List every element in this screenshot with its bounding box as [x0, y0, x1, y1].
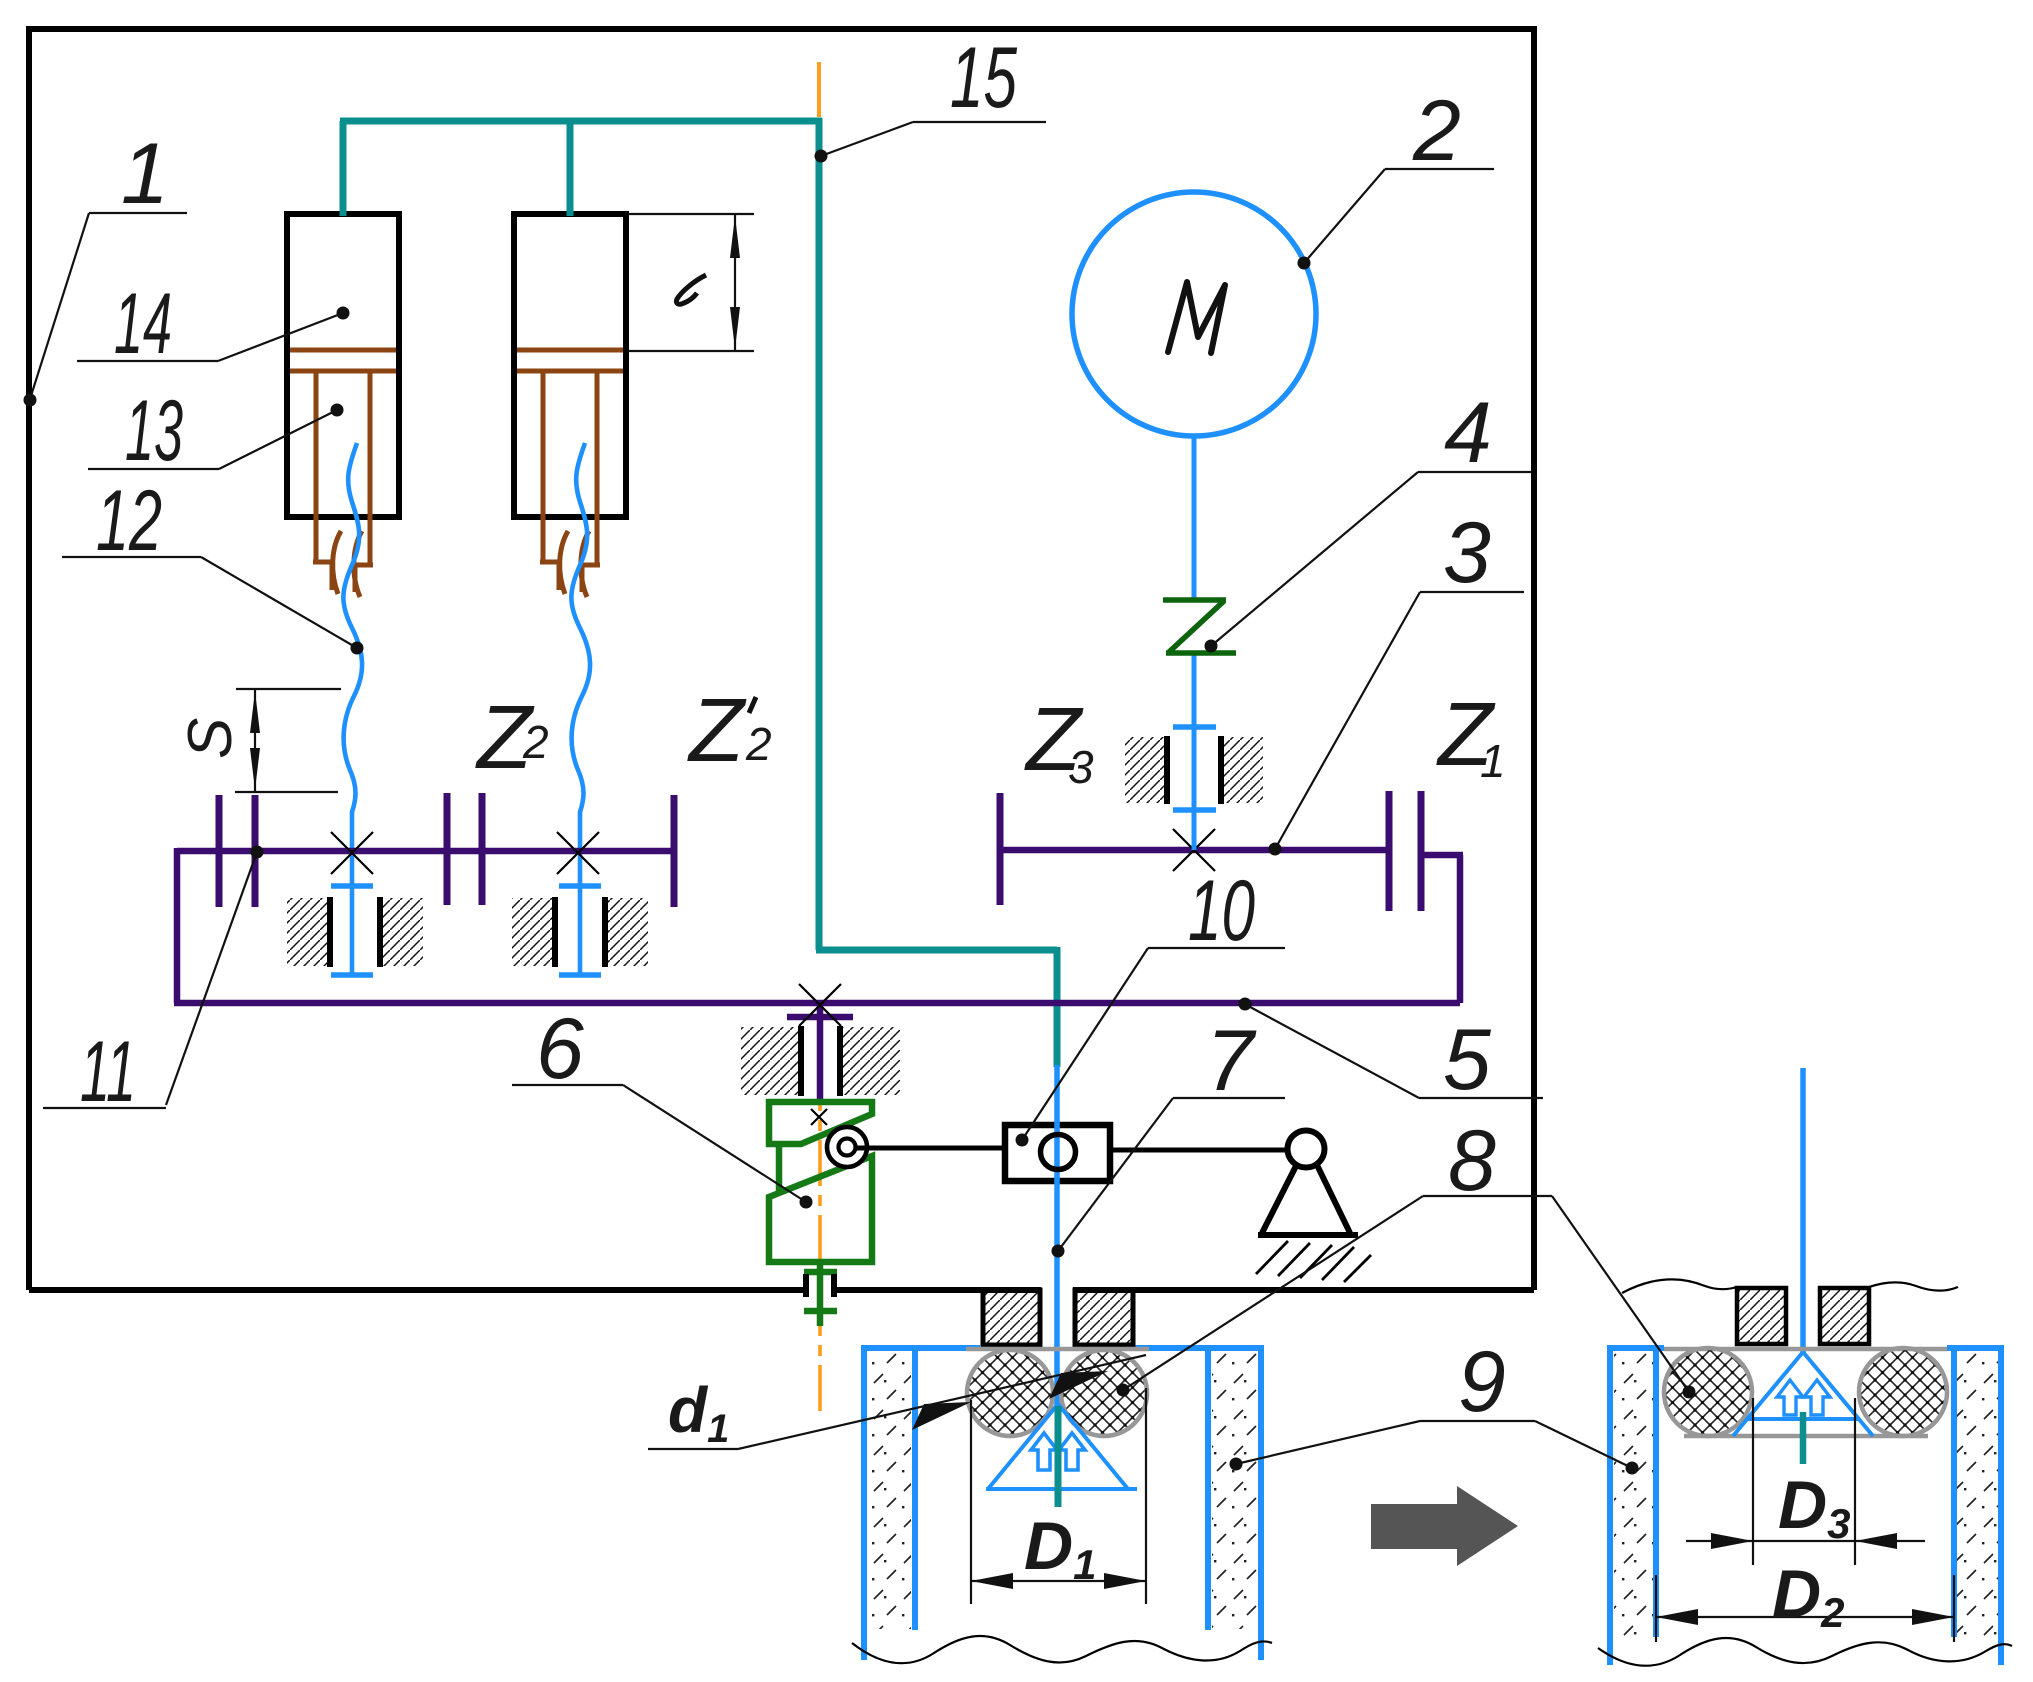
svg-text:2: 2 — [522, 716, 549, 768]
melt cone (blue, detail) — [1733, 1352, 1873, 1436]
output shaft of mechanism 6 — [817, 1262, 824, 1326]
lever (right part) — [1110, 1148, 1290, 1153]
spindle (left, blue vertical through gear Z2) — [331, 727, 1216, 975]
svg-text:2: 2 — [745, 718, 772, 770]
svg-text:5: 5 — [1443, 1012, 1492, 1108]
bearing (motor spindle above Z3) — [1125, 736, 1263, 804]
dimension D2 — [1656, 1575, 1954, 1642]
wire melt stream 12 (left, wavy blue) — [343, 443, 362, 975]
mechanism 6 (green friction variator) — [769, 1102, 872, 1326]
svg-text:8: 8 — [1448, 1113, 1496, 1209]
crucible wall hatch (detail) — [1614, 1351, 1653, 1636]
svg-text:1: 1 — [121, 126, 169, 222]
gear mesh X (Z2) — [331, 832, 373, 874]
svg-text:3: 3 — [1443, 505, 1491, 601]
gear mesh X (Z'2) — [557, 832, 599, 874]
regulator 10 (box with circle) — [1005, 1125, 1110, 1181]
drawn fibre (teal, detail) — [1800, 1412, 1807, 1464]
lever 7 linkage (left part) — [856, 1146, 1005, 1151]
motor letter M — [1168, 282, 1225, 353]
piston (second cylinder piston, brown) — [517, 350, 623, 597]
svg-text:4: 4 — [1444, 385, 1492, 481]
bearing (vertical bevel shaft) — [741, 1026, 900, 1096]
svg-text:11: 11 — [80, 1024, 136, 1120]
detail view break line (top wavy) — [1622, 1279, 1737, 1293]
motor shaft (blue) — [1192, 436, 1197, 600]
roller 8 (detail right) — [1859, 1348, 1947, 1436]
gear end plates (purple bars) — [219, 791, 1421, 911]
gear mesh X (Z3) — [1173, 829, 1215, 871]
dimension l (cylinder stroke) — [628, 214, 754, 351]
svg-text:S: S — [176, 718, 245, 759]
svg-text:10: 10 — [1188, 863, 1255, 959]
bearing (gear Z'2 spindle) — [512, 897, 648, 967]
svg-text:2: 2 — [1412, 83, 1461, 179]
svg-text:3: 3 — [1068, 741, 1094, 793]
roller 8 (detail left) — [1664, 1348, 1752, 1436]
coupling 4 (slip coupling, green Z) — [1163, 600, 1236, 653]
melt cone (blue triangle, left view) — [986, 1404, 1137, 1489]
roller 8 (right, crosshatched) — [1061, 1350, 1147, 1436]
dimension S (stream sag) — [235, 689, 341, 792]
dimension D1 — [971, 1388, 1146, 1604]
centerline (orange) above pipe — [817, 62, 821, 117]
melt stream (second, wavy blue) — [571, 443, 590, 975]
spinneret channel blocks 8 area (hatched) — [983, 1290, 1040, 1345]
svg-text:15: 15 — [950, 30, 1018, 126]
svg-text:9: 9 — [1458, 1334, 1506, 1430]
svg-text:Z: Z — [687, 681, 747, 781]
svg-text:6: 6 — [536, 1001, 584, 1097]
roller housing line (gray) — [966, 1347, 1149, 1352]
svg-text:13: 13 — [125, 383, 183, 479]
thrust bearing bars of mechanism 6 — [803, 1274, 809, 1297]
gear mesh X (bevel on shaft 5) — [799, 984, 841, 1026]
shaft 3 (right gear-train shaft) — [1000, 847, 1389, 854]
motor 2 (M, blue circle) — [1072, 192, 1316, 436]
crucible wall hatch (left view) — [868, 1351, 911, 1629]
shaft 5 (long bottom transmission shaft) — [174, 1000, 1460, 1007]
svg-text:14: 14 — [114, 276, 172, 372]
detail break line (wavy bottom) — [1598, 1638, 2012, 1666]
shaft 11 (left gear-train shaft, purple) — [174, 848, 1463, 1100]
crucible break line (wavy bottom) — [852, 1636, 1272, 1663]
piston 13 (left cylinder piston, brown) — [290, 350, 396, 597]
crucible 9 (left view, blue walls) — [861, 1345, 1264, 1660]
roller 8 (left, crosshatched) — [967, 1350, 1053, 1436]
cylinder (second feed cylinder body) — [514, 214, 626, 517]
transition arrow (gray block arrow) — [1371, 1486, 1518, 1566]
detail spinneret blocks (hatched) — [1737, 1288, 1786, 1344]
cylinder 14 (left feed cylinder body) — [287, 214, 399, 517]
detail melt feed line (blue) — [1800, 1068, 1806, 1353]
svg-text:1: 1 — [1480, 735, 1506, 787]
drawn fibre (teal, below nip) — [1055, 1406, 1062, 1507]
bearing (gear Z2 spindle) — [287, 897, 423, 967]
pipe joints at cylinder tops (teal overlay) — [340, 206, 347, 216]
flow arrows (blue, detail) — [1777, 1380, 1803, 1415]
support hatching — [1256, 1241, 1371, 1282]
frame 1 (machine housing border) — [29, 29, 1534, 1290]
small x mark on variator centerline — [811, 1109, 827, 1125]
crucible 9 (detail view, blue walls) — [1607, 1345, 2004, 1665]
centerline (orange) of vertical shaft / mechanism 6 — [818, 1065, 822, 1412]
pipe 15 (gas line, teal) — [340, 118, 1057, 1067]
shaft (vertical bevel output to mechanism 6) — [817, 1003, 824, 1100]
dimension D3 — [1686, 1398, 1925, 1565]
label l — [676, 275, 706, 304]
d1 arrowheads — [912, 1402, 971, 1430]
flow arrows (blue, left view) — [1031, 1433, 1057, 1470]
roller housing (gray stadium, detail) — [1664, 1347, 1947, 1352]
svg-text:12: 12 — [96, 473, 162, 569]
roller of variator (black circles) — [827, 1127, 867, 1167]
svg-text:7: 7 — [1206, 1013, 1257, 1109]
melt channel line (blue vertical through regulator 10) — [1054, 1065, 1060, 1406]
support triangle (fixed pivot) — [1262, 1165, 1350, 1233]
regulator 10 circle — [1041, 1135, 1076, 1170]
pivot circle of lever — [1288, 1131, 1325, 1168]
